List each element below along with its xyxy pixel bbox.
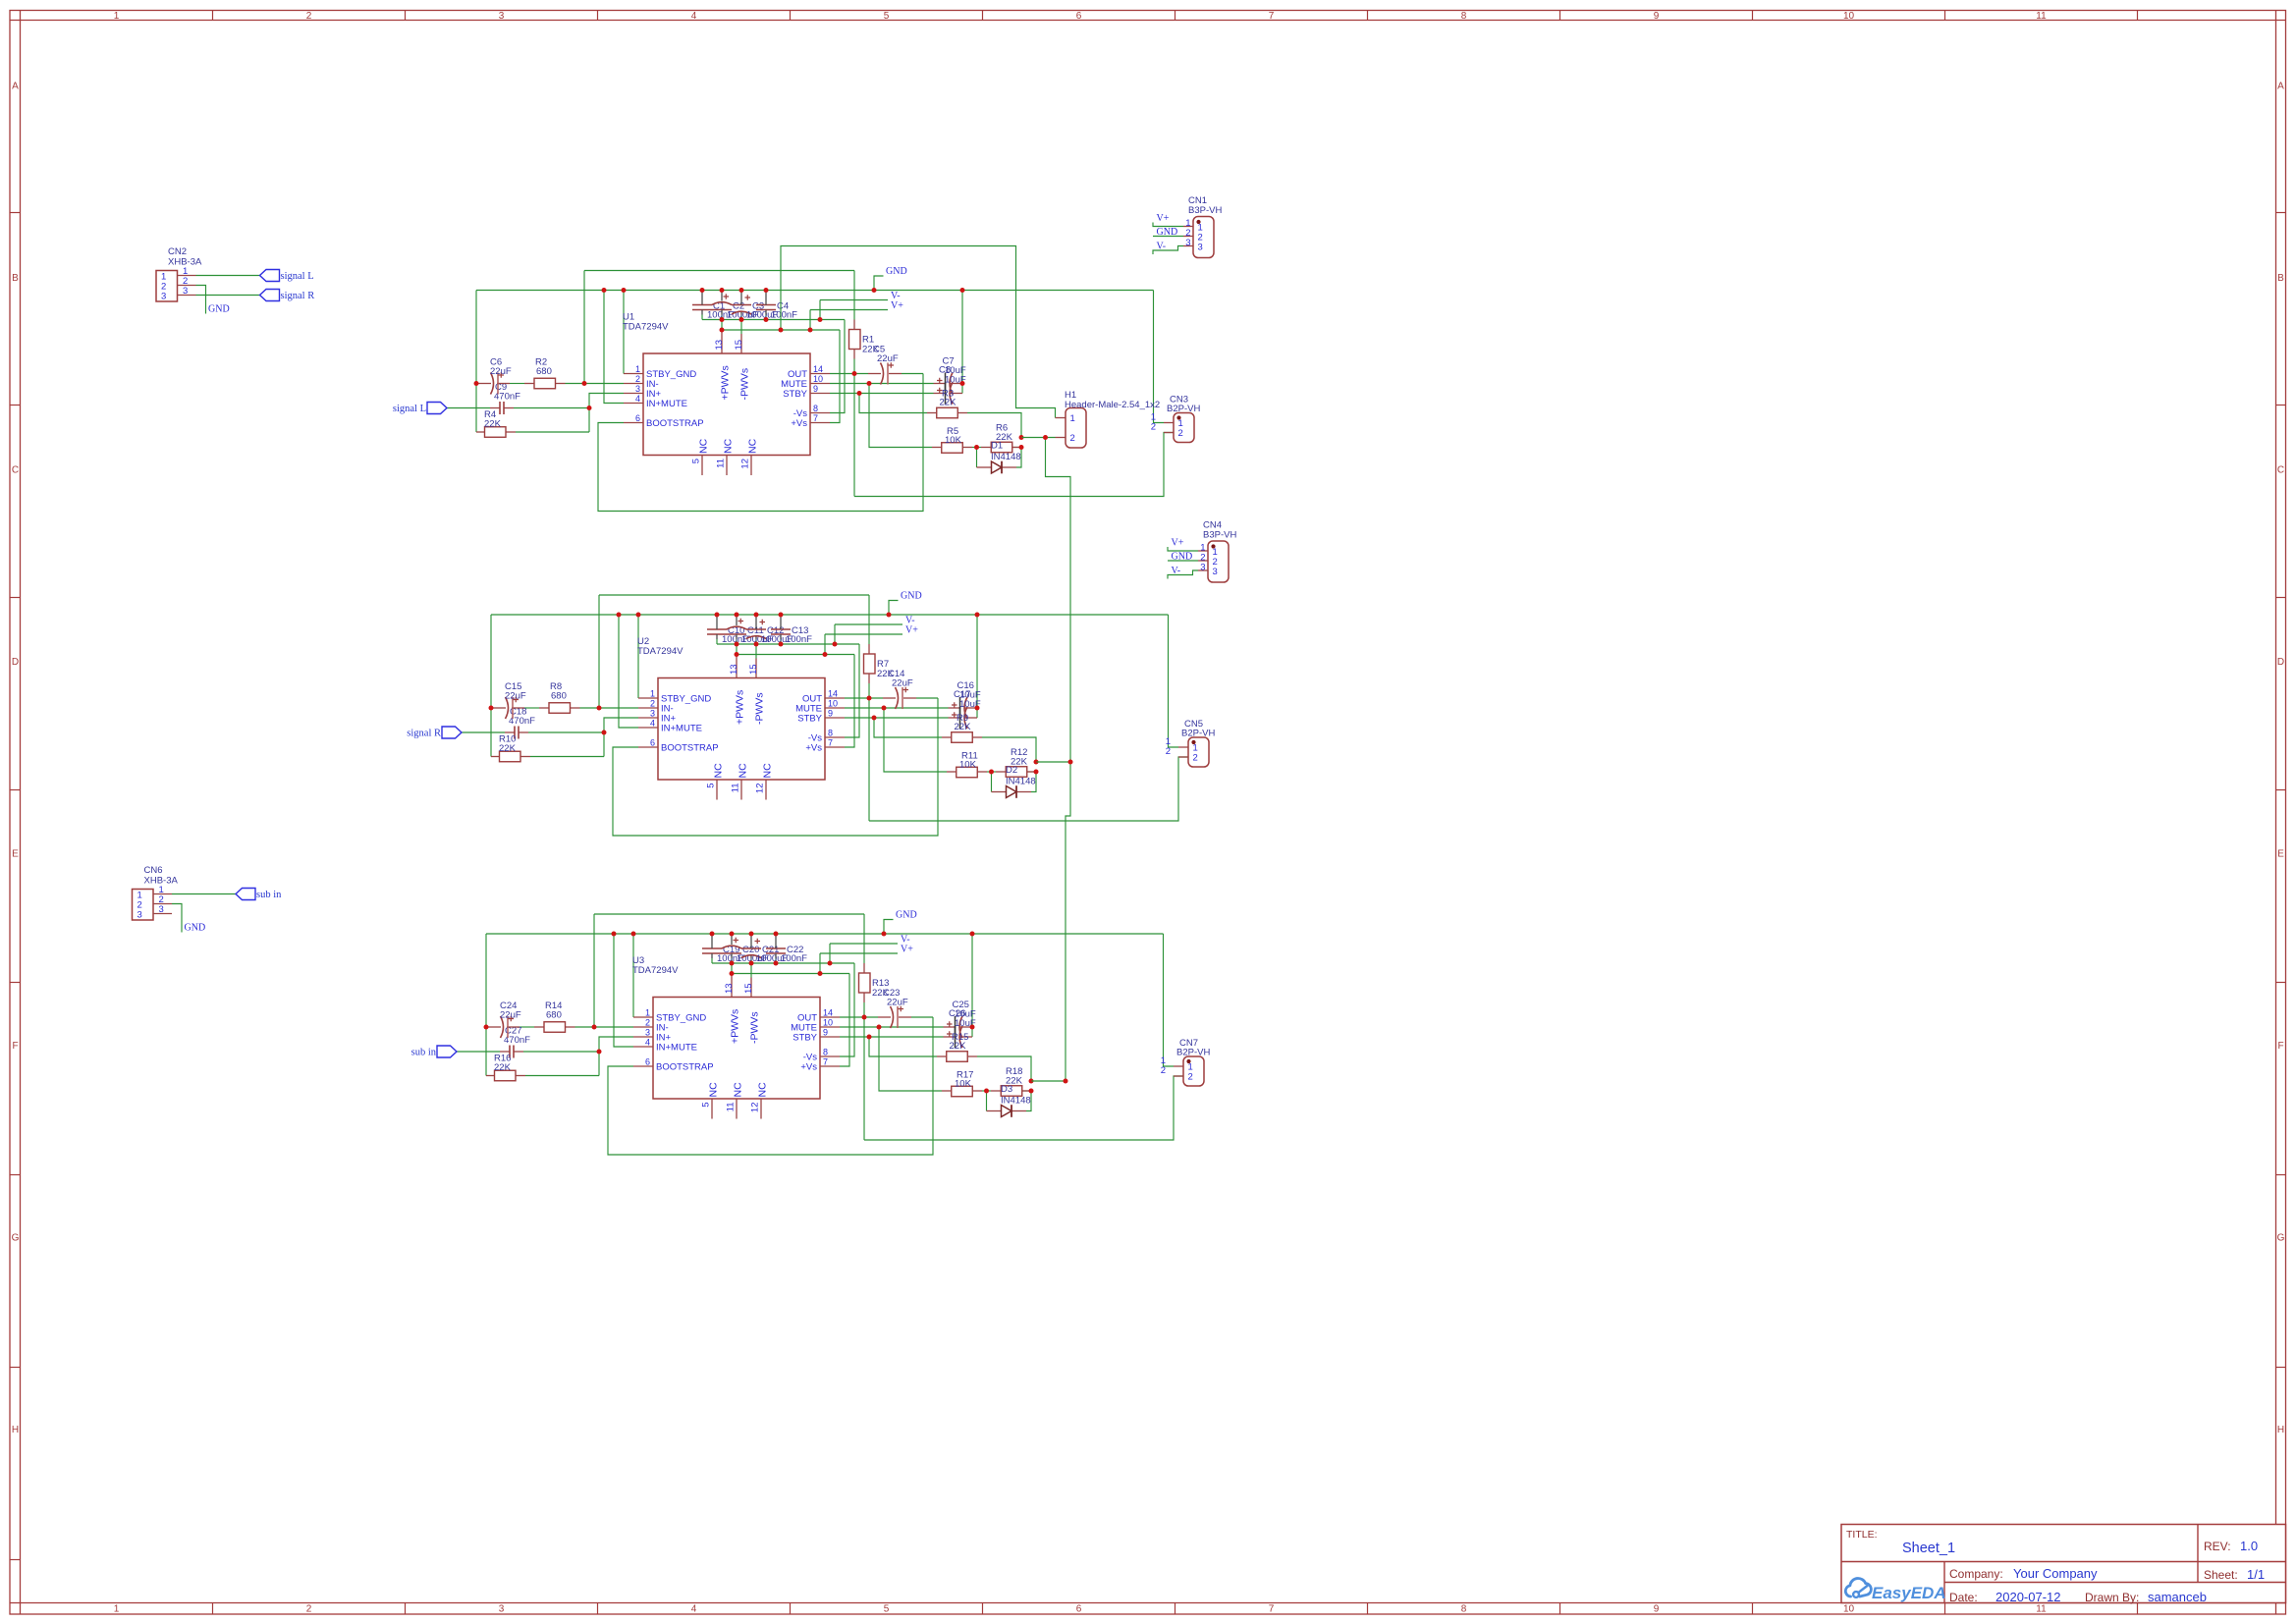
capacitor C19	[702, 947, 722, 949]
wire -Vs to V- rail	[840, 963, 854, 1056]
op-amp U3 TDA7294V	[653, 998, 820, 1100]
svg-text:2: 2	[1188, 1072, 1193, 1083]
svg-text:REV:: REV:	[2204, 1540, 2231, 1553]
pin 13 +PWVs of U2	[736, 655, 738, 678]
svg-text:22uF: 22uF	[887, 998, 908, 1008]
resistor R10	[500, 751, 521, 762]
wire D3 bypass	[986, 1091, 988, 1111]
capacitor C17	[959, 707, 961, 729]
junction at 1009.5,786.0	[989, 770, 994, 775]
wire bootstrap loop	[598, 374, 923, 512]
capacitor C16	[959, 697, 961, 719]
header H1 Header-Male-2.54_1x2	[1066, 408, 1086, 449]
junction at 875,400.5	[857, 391, 862, 396]
svg-text:9: 9	[813, 384, 818, 394]
svg-text:4: 4	[691, 1604, 697, 1615]
svg-text:680: 680	[551, 691, 567, 702]
svg-text:22K: 22K	[955, 722, 972, 732]
wire V+ flag drop	[824, 634, 826, 655]
svg-text:10: 10	[1843, 11, 1855, 22]
net flag V+	[1168, 547, 1198, 551]
wire OUT row	[840, 1016, 878, 1018]
capacitor C8	[945, 383, 947, 405]
wire pin1 to sub in	[172, 893, 236, 895]
pin 13 +PWVs of U1	[721, 330, 723, 353]
pin of C13	[780, 615, 782, 629]
pin 11 NC of U3	[736, 1099, 738, 1119]
connector CN7 B2P-VH	[1183, 1056, 1204, 1086]
pin-1 marker of CN4	[1211, 544, 1215, 548]
junction at 795,656.0	[779, 642, 784, 647]
pin 2 of CN2	[178, 285, 196, 287]
pin of C20	[731, 934, 733, 945]
svg-text:GND: GND	[208, 304, 230, 315]
wire GND rail to speaker connector pin1	[1164, 934, 1175, 1066]
connector CN4 B3P-VH	[1208, 541, 1229, 582]
pin-1 marker of CN5	[1191, 740, 1195, 744]
svg-text:5: 5	[884, 11, 890, 22]
net flag V+	[810, 309, 888, 311]
pin 2 of CN1	[1183, 236, 1193, 238]
svg-text:22K: 22K	[499, 743, 517, 754]
wire V+ rail	[732, 973, 849, 975]
junction at 895,1046.0	[877, 1025, 882, 1030]
svg-text:2: 2	[645, 1018, 650, 1028]
wire D1 bypass	[976, 448, 978, 468]
svg-text:IN4148: IN4148	[1001, 1096, 1031, 1107]
pin 14 OUT of U1	[810, 373, 830, 375]
wire IN- top run	[599, 594, 869, 596]
wire V- flag drop	[819, 300, 821, 320]
svg-text:3: 3	[499, 11, 505, 22]
junction at 610,721.0	[597, 706, 602, 711]
pin of C22	[775, 934, 777, 948]
pin 8 -Vs of U2	[825, 736, 845, 738]
junction at 600,415.5	[587, 406, 592, 410]
junction at 790,981.0	[774, 961, 779, 966]
svg-text:1: 1	[650, 689, 655, 699]
wire R1 bottom to OUT	[853, 359, 855, 497]
svg-text:11: 11	[731, 784, 741, 793]
svg-text:V-: V-	[1172, 566, 1181, 576]
wire R10 right	[530, 756, 604, 758]
svg-text:7: 7	[813, 413, 818, 423]
net flag V+	[825, 633, 902, 635]
capacitor C1	[692, 304, 712, 306]
junction at 990,951.0	[970, 932, 975, 937]
svg-text:22uF: 22uF	[877, 353, 899, 364]
wire IN+MUTE to GND	[619, 615, 638, 728]
junction at 735,295.5	[720, 288, 725, 293]
svg-text:3: 3	[137, 910, 142, 921]
svg-text:9: 9	[1654, 1604, 1660, 1615]
resistor R12	[1006, 767, 1027, 778]
svg-text:Date:: Date:	[1949, 1591, 1978, 1604]
pin 14 OUT of U2	[825, 697, 845, 699]
svg-text:EasyEDA: EasyEDA	[1872, 1584, 1946, 1602]
pin 7 +Vs of U1	[810, 422, 830, 424]
svg-text:3: 3	[1200, 563, 1205, 573]
wire IN+MUTE to GND	[604, 291, 624, 404]
wire STBY to R9 row	[874, 718, 942, 737]
pin of C11	[736, 615, 738, 625]
pin 5 NC of U3	[711, 1099, 713, 1119]
junction at 900,721.0	[882, 706, 887, 711]
wire STBY row	[845, 717, 949, 719]
junction at 880,1036.0	[862, 1015, 867, 1020]
pin 10 MUTE of U1	[810, 383, 830, 385]
pin 1 of CN4	[1198, 550, 1208, 552]
wire input row	[447, 407, 490, 409]
pin 6 BOOTSTRAP of U2	[638, 746, 658, 748]
junction at 1050,1111.0	[1029, 1089, 1034, 1094]
junction at 885,1056.0	[867, 1035, 872, 1040]
svg-text:15: 15	[743, 983, 754, 994]
junction dot on trunk	[1068, 760, 1073, 765]
svg-text:5: 5	[701, 1103, 712, 1108]
capacitor C4	[756, 304, 776, 306]
wire OUT row	[830, 373, 868, 375]
junction at 900,951.0	[882, 932, 887, 937]
svg-text:sub in: sub in	[256, 890, 282, 900]
pin 3 IN+ of U3	[633, 1036, 653, 1038]
svg-text:NC: NC	[708, 1082, 720, 1098]
svg-text:GND: GND	[886, 266, 907, 277]
connector CN1 B3P-VH	[1193, 217, 1214, 258]
capacitor C24	[501, 1016, 504, 1038]
svg-text:2020-07-12: 2020-07-12	[1995, 1590, 2061, 1604]
pin 1 of CN7	[1174, 1065, 1183, 1067]
svg-text:TDA7294V: TDA7294V	[632, 965, 679, 976]
wire R5 to R6	[972, 447, 981, 449]
net flag GND	[1168, 560, 1198, 562]
capacitor C22	[766, 947, 786, 949]
svg-text:22uF: 22uF	[505, 691, 526, 702]
pin 3 of CN1	[1183, 245, 1193, 247]
svg-text:4: 4	[691, 11, 697, 22]
svg-text:signal R: signal R	[407, 729, 441, 739]
junction at 650,626.0	[636, 613, 641, 618]
svg-text:A: A	[2277, 81, 2284, 92]
pin 3 of CN6	[153, 913, 172, 915]
svg-text:3: 3	[1185, 238, 1190, 248]
wire input row	[462, 731, 505, 733]
svg-text:7: 7	[1269, 11, 1275, 22]
svg-text:NC: NC	[698, 438, 710, 454]
svg-text:100nF: 100nF	[786, 634, 812, 645]
wire GND rail left drop	[490, 615, 492, 757]
junction at 630,626.0	[617, 613, 622, 618]
pin 13 +PWVs of U3	[731, 974, 733, 998]
pin 6 BOOTSTRAP of U3	[633, 1065, 653, 1067]
junction at 1055,776.0	[1034, 760, 1039, 765]
svg-text:10: 10	[1843, 1604, 1855, 1615]
svg-text:13: 13	[729, 664, 739, 675]
capacitor C27	[509, 1046, 511, 1058]
netport sub in	[437, 1046, 457, 1057]
wire R11 to R12	[987, 771, 996, 773]
junction at 780,325.5	[764, 317, 769, 322]
wire input to IN+	[604, 718, 638, 757]
pin 10 MUTE of U2	[825, 707, 845, 709]
pin 5 NC of U1	[701, 456, 703, 476]
svg-text:B: B	[12, 273, 19, 284]
capacitor C26	[955, 1026, 957, 1048]
svg-text:signal L: signal L	[281, 271, 314, 282]
svg-text:9: 9	[823, 1028, 828, 1038]
junction at 745,981.0	[730, 961, 735, 966]
pin 1 STBY_GND of U1	[624, 373, 643, 375]
svg-text:CN6: CN6	[144, 865, 163, 876]
junction at 500,721.0	[489, 706, 494, 711]
junction at 885,390.5	[867, 381, 872, 386]
svg-text:D3: D3	[1001, 1084, 1012, 1095]
svg-text:NC: NC	[762, 763, 774, 779]
svg-text:+PWVs: +PWVs	[735, 690, 746, 725]
svg-text:8: 8	[828, 729, 833, 738]
svg-text:10: 10	[828, 699, 838, 709]
svg-text:NC: NC	[723, 438, 735, 454]
wire bootstrap loop	[613, 698, 938, 836]
resistor R18	[1001, 1086, 1022, 1097]
pin of C4	[765, 291, 767, 305]
svg-text:IN+MUTE: IN+MUTE	[656, 1043, 697, 1054]
junction at 770,626.0	[754, 613, 759, 618]
svg-text:CN2: CN2	[168, 246, 187, 257]
svg-text:15: 15	[734, 340, 744, 351]
wire -Vs to V- rail	[845, 644, 859, 737]
pin 2 IN- of U3	[633, 1026, 653, 1028]
resistor R7	[864, 654, 876, 674]
svg-text:2: 2	[306, 11, 312, 22]
wire STBY_GND to GND	[632, 934, 634, 1017]
wire standby trunk down to other blocks	[1046, 438, 1071, 1082]
svg-text:B2P-VH: B2P-VH	[1181, 729, 1215, 739]
EasyEDA logo	[1845, 1578, 1871, 1596]
svg-text:14: 14	[813, 364, 823, 374]
netport signal L	[260, 270, 280, 282]
svg-text:5: 5	[691, 459, 702, 463]
wire GND rail to speaker connector pin1	[1169, 615, 1179, 747]
svg-text:3: 3	[1213, 567, 1218, 577]
junction at 890,731.0	[872, 716, 877, 721]
wire V+ flag drop	[809, 310, 811, 331]
junction at 905,626.0	[887, 613, 892, 618]
svg-text:3: 3	[635, 384, 640, 394]
pin 4 IN+MUTE of U2	[638, 727, 658, 729]
junction at 750,666.5	[735, 652, 739, 657]
netport sub in	[236, 889, 255, 900]
svg-text:11: 11	[2036, 1604, 2047, 1615]
svg-text:V+: V+	[1157, 213, 1170, 224]
pin 8 -Vs of U3	[820, 1055, 840, 1057]
resistor R8	[549, 703, 571, 714]
junction at 994.5,455.5	[974, 445, 979, 450]
wire IN- top run	[594, 913, 864, 915]
netport signal L	[427, 403, 447, 414]
wire V- rail	[717, 643, 859, 645]
wire caps to V- V+ rails	[701, 315, 703, 320]
svg-text:10: 10	[813, 374, 823, 384]
pin 1 of H1	[1056, 417, 1066, 419]
junction at 605,1046.0	[592, 1025, 597, 1030]
wire R9 to standby node	[982, 737, 1036, 762]
wire IN- vertical	[583, 271, 585, 384]
wire STBY_GND to GND	[637, 615, 639, 698]
wire pin2 to GND	[172, 904, 182, 933]
wire C6 R2 row	[510, 383, 524, 385]
junction at 850,656.0	[833, 642, 838, 647]
svg-text:TDA7294V: TDA7294V	[637, 646, 683, 657]
wire +Vs to V+ rail	[830, 330, 840, 423]
wire V- rail	[702, 319, 845, 321]
wire V+ rail	[737, 654, 854, 656]
svg-text:B3P-VH: B3P-VH	[1188, 205, 1222, 216]
svg-text:2: 2	[1166, 746, 1171, 757]
net flag V+	[1153, 223, 1183, 227]
svg-text:22uF: 22uF	[500, 1010, 521, 1021]
svg-text:D1: D1	[991, 441, 1003, 452]
junction at 595,390.5	[582, 381, 587, 386]
svg-text:-PWVs: -PWVs	[739, 368, 751, 401]
pin 2 of CN6	[153, 903, 172, 905]
svg-text:B: B	[2277, 273, 2284, 284]
wire STBY row	[830, 393, 934, 395]
wire STBY row	[840, 1036, 944, 1038]
pin of C1	[701, 291, 703, 305]
resistor R15	[947, 1052, 968, 1062]
wire MUTE to R17	[879, 1027, 942, 1091]
junction at 735,336	[720, 328, 725, 333]
wire R17 to R18	[982, 1090, 991, 1092]
pin 3 IN+ of U1	[624, 393, 643, 395]
junction at 765,981.0	[749, 961, 754, 966]
svg-text:14: 14	[823, 1008, 833, 1018]
net flag V+	[820, 952, 898, 954]
pin 1 STBY_GND of U2	[638, 697, 658, 699]
pin 1 of CN3	[1164, 422, 1174, 424]
svg-text:F: F	[12, 1041, 18, 1052]
junction at 835,991.5	[818, 971, 823, 976]
wire pin1 to signal L	[196, 275, 260, 277]
junction at 745,991.5	[730, 971, 735, 976]
pin 1 of CN6	[153, 893, 172, 895]
junction at 485,390.5	[474, 381, 479, 386]
junction at 845,981.0	[828, 961, 833, 966]
svg-text:6: 6	[1076, 11, 1082, 22]
pin of C21	[750, 934, 752, 948]
svg-text:8: 8	[1461, 1604, 1467, 1615]
svg-text:680: 680	[546, 1010, 562, 1021]
pin 7 +Vs of U3	[820, 1065, 840, 1067]
capacitor C21	[741, 947, 761, 949]
junction at 1040,445.5	[1019, 435, 1024, 440]
svg-text:NC: NC	[713, 763, 725, 779]
svg-text:GND: GND	[185, 923, 206, 934]
wire IN+MUTE to GND	[614, 934, 633, 1047]
wire OUT run to connector	[864, 1076, 1183, 1140]
svg-text:100nF: 100nF	[781, 953, 807, 964]
svg-text:A: A	[12, 81, 19, 92]
border frame inner	[10, 20, 2286, 22]
resistor R5	[942, 443, 963, 454]
svg-text:Sheet:: Sheet:	[2204, 1568, 2238, 1582]
op-amp U2 TDA7294V	[658, 678, 825, 781]
pin of C12	[755, 615, 757, 629]
svg-text:1: 1	[635, 364, 640, 374]
wire V- flag drop	[834, 624, 836, 644]
svg-text:10: 10	[823, 1018, 833, 1028]
wire OUT row	[845, 697, 883, 699]
svg-text:BOOTSTRAP: BOOTSTRAP	[661, 743, 719, 754]
wire C15 R8 row	[524, 707, 539, 709]
junction at 615,746.0	[602, 730, 607, 735]
wire R6 right	[1012, 447, 1022, 449]
resistor R1	[849, 330, 861, 350]
svg-text:3: 3	[183, 286, 188, 297]
svg-text:6: 6	[650, 738, 655, 748]
wire R7 top	[868, 595, 870, 644]
pin 7 +Vs of U2	[825, 746, 845, 748]
pin 15 -PWVs of U1	[740, 334, 742, 353]
pin 11 NC of U1	[726, 456, 728, 476]
wire MUTE row	[845, 707, 949, 709]
pin 5 NC of U2	[716, 780, 718, 800]
capacitor C14	[896, 687, 899, 709]
junction at 890,295.5	[872, 288, 877, 293]
wire C24 R14 row	[519, 1026, 534, 1028]
wire R15 to standby node	[977, 1056, 1031, 1081]
junction at 750,656.0	[735, 642, 739, 647]
junction at 870,380.5	[852, 371, 857, 376]
svg-text:C: C	[12, 465, 19, 476]
svg-text:IN+MUTE: IN+MUTE	[646, 399, 687, 409]
capacitor C12	[746, 628, 766, 630]
wire MUTE cap to GND drop	[961, 291, 963, 394]
netport signal R	[260, 290, 280, 301]
svg-text:1.0: 1.0	[2240, 1539, 2258, 1553]
title block	[1841, 1525, 2286, 1603]
svg-text:3: 3	[499, 1604, 505, 1615]
pin 4 IN+MUTE of U3	[633, 1046, 653, 1048]
svg-text:6: 6	[635, 413, 640, 423]
pin 1 of CN5	[1178, 746, 1188, 748]
junction at 755,325.5	[739, 317, 744, 322]
resistor R4	[485, 427, 507, 438]
pin of C19	[711, 934, 713, 948]
svg-text:NC: NC	[747, 438, 759, 454]
pin 2 IN- of U1	[624, 383, 643, 385]
wire MUTE cap to GND drop	[976, 615, 978, 718]
junction at 840,666.5	[823, 652, 828, 657]
junction at 755,295.5	[739, 288, 744, 293]
svg-text:2: 2	[1193, 753, 1198, 764]
resistor R3	[937, 407, 958, 418]
svg-text:3: 3	[650, 709, 655, 719]
diode D3	[1002, 1106, 1012, 1117]
resistor R14	[544, 1022, 566, 1033]
resistor R16	[495, 1070, 517, 1081]
svg-text:5: 5	[706, 784, 717, 788]
svg-text:+Vs: +Vs	[800, 1062, 817, 1073]
svg-text:IN4148: IN4148	[991, 452, 1021, 462]
pin 15 -PWVs of U3	[750, 978, 752, 998]
svg-text:STBY: STBY	[793, 1033, 817, 1044]
junction at 995,721.0	[975, 706, 980, 711]
wire R1 top	[853, 271, 855, 320]
svg-text:STBY: STBY	[797, 714, 822, 725]
pin 8 -Vs of U1	[810, 412, 830, 414]
